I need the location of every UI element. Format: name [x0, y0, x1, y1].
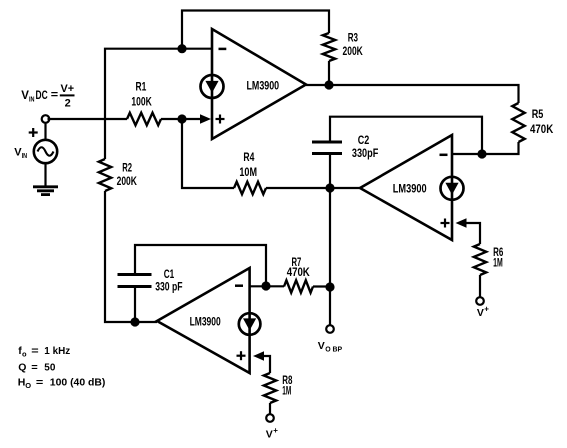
svg-text:LM3900: LM3900 [190, 316, 221, 328]
svg-text:IN: IN [29, 95, 35, 104]
wire: C1 bottom plate to U3 output line [134, 287, 136, 323]
label: V+ (U3) [266, 426, 279, 441]
wire: R6 to V+ terminal [479, 275, 481, 298]
svg-text:50: 50 [44, 362, 55, 374]
capacitor C2 [312, 133, 378, 160]
svg-text:200K: 200K [117, 174, 138, 188]
wire: C1 top plate up and over to U3 - input node [135, 245, 266, 286]
label: fo = 1 kHz [18, 345, 70, 358]
svg-text:R2: R2 [122, 161, 132, 175]
svg-text:=: = [51, 89, 58, 101]
wire: U2 + input to R6 [464, 223, 480, 244]
wire: R4 to U2 output vertex [266, 187, 360, 189]
svg-text:=: = [31, 362, 38, 374]
ground [33, 187, 58, 195]
svg-text:V+: V+ [61, 83, 75, 95]
wire: R5 bottom to U2 - input line [452, 142, 519, 154]
wire: terminal to VIN source [44, 123, 46, 140]
svg-text:100 (40 dB): 100 (40 dB) [50, 377, 106, 389]
wire: VIN to ground [44, 163, 46, 186]
svg-text:=: = [36, 377, 43, 389]
resistor R4 [234, 150, 266, 194]
node: U2 - input junction [477, 149, 486, 158]
svg-text:R4: R4 [243, 150, 254, 164]
resistor R5 [512, 103, 553, 142]
svg-text:330pF: 330pF [352, 146, 378, 160]
label: VIN DC = V+/2 [21, 83, 74, 109]
wire: U2 - node up and left to C2 top plate [330, 117, 482, 154]
svg-text:=: = [31, 345, 38, 357]
label: Q = 50 [18, 362, 55, 374]
svg-text:DC: DC [36, 90, 48, 102]
svg-text:330 pF: 330 pF [155, 280, 182, 294]
wire: U1 output across to R5 [306, 85, 519, 103]
resistor R2 [99, 159, 137, 191]
capacitor C1 [118, 267, 183, 294]
wire: top feedback loop from U1 - node over to R3 [182, 11, 329, 49]
svg-text:V: V [318, 340, 325, 352]
wire: U1 - input node to op-amp [182, 48, 212, 50]
wire: arrow into U3 + input [253, 351, 264, 361]
svg-text:R3: R3 [348, 31, 359, 45]
wire: U3 + input to R8 [261, 356, 270, 373]
wire: VOBP line down to output terminal [329, 188, 331, 325]
node: VOBP junction [325, 282, 334, 291]
wire: R2 bottom down to U3 output line [105, 191, 157, 322]
svg-text:470K: 470K [530, 122, 553, 136]
wire: R3 bottom to U1 output [328, 61, 330, 85]
label: VIN [14, 147, 27, 161]
resistor R6 [474, 244, 504, 275]
op-amp U2 LM3900 [360, 135, 464, 240]
source VIN sine generator [34, 140, 57, 163]
svg-text:200K: 200K [343, 44, 364, 58]
svg-text:+: + [273, 426, 278, 435]
node: U1 - input junction [177, 44, 186, 53]
svg-text:V: V [477, 307, 484, 319]
wire: R7 to VOBP node [313, 285, 330, 287]
node: V+ terminal of U3 [266, 414, 274, 422]
node: U1 output junction [324, 80, 333, 89]
node: U3 - input junction [261, 281, 270, 290]
svg-text:1M: 1M [493, 256, 503, 270]
wire: vertical from U1 - input line down crossing input wire to R2 [105, 49, 182, 159]
wire: arrow into U1 + input [200, 114, 211, 124]
svg-text:O BP: O BP [325, 346, 342, 353]
node: V+ terminal of U2 [476, 297, 484, 305]
node: U1 + input junction [177, 114, 186, 123]
resistor R8 [264, 373, 293, 403]
svg-text:o: o [22, 349, 27, 358]
svg-text:100K: 100K [131, 94, 152, 108]
node: VOBP output terminal [326, 325, 334, 333]
resistor R1 [127, 80, 161, 126]
svg-text:R5: R5 [532, 107, 544, 121]
svg-text:IN: IN [22, 151, 28, 160]
op-amp U1 LM3900 [201, 29, 307, 139]
svg-text:C2: C2 [358, 133, 370, 147]
svg-text:LM3900: LM3900 [393, 183, 427, 195]
svg-text:470K: 470K [287, 265, 310, 279]
svg-text:2: 2 [65, 97, 71, 109]
wire: R8 to V+ terminal [269, 403, 271, 415]
resistor R7 [284, 255, 313, 293]
op-amp U3 LM3900 [157, 268, 260, 373]
node: VIN input terminal [42, 115, 50, 123]
svg-text:10M: 10M [239, 165, 257, 179]
label: V+ (U2) [477, 305, 489, 320]
wire: U3 - input to R7 [250, 285, 284, 287]
node: C1 junction on U3 output line [130, 317, 139, 326]
label: HO = 100 (40 dB) [18, 377, 106, 391]
label: VO BP [318, 340, 343, 353]
node: junction of C2, VOBP line and U2 output line [325, 183, 334, 192]
wire: input node to R1 [48, 118, 128, 120]
wire: U1 + node down to R4 [182, 119, 234, 188]
svg-text:1M: 1M [282, 384, 291, 398]
svg-text:O: O [25, 381, 31, 390]
wire: arrow into U2 + input [456, 218, 467, 228]
wire: R1 to U1 + input node [161, 118, 201, 120]
svg-text:+: + [484, 305, 489, 314]
svg-text:Q: Q [18, 362, 26, 374]
svg-text:1 kHz: 1 kHz [44, 345, 70, 357]
wire: C2 bottom plate down to R4 line [329, 154, 331, 189]
label: + polarity of VIN [29, 128, 38, 137]
resistor R3 [323, 31, 363, 61]
svg-text:LM3900: LM3900 [247, 81, 280, 93]
svg-text:R1: R1 [136, 80, 147, 94]
svg-text:V: V [266, 429, 273, 441]
